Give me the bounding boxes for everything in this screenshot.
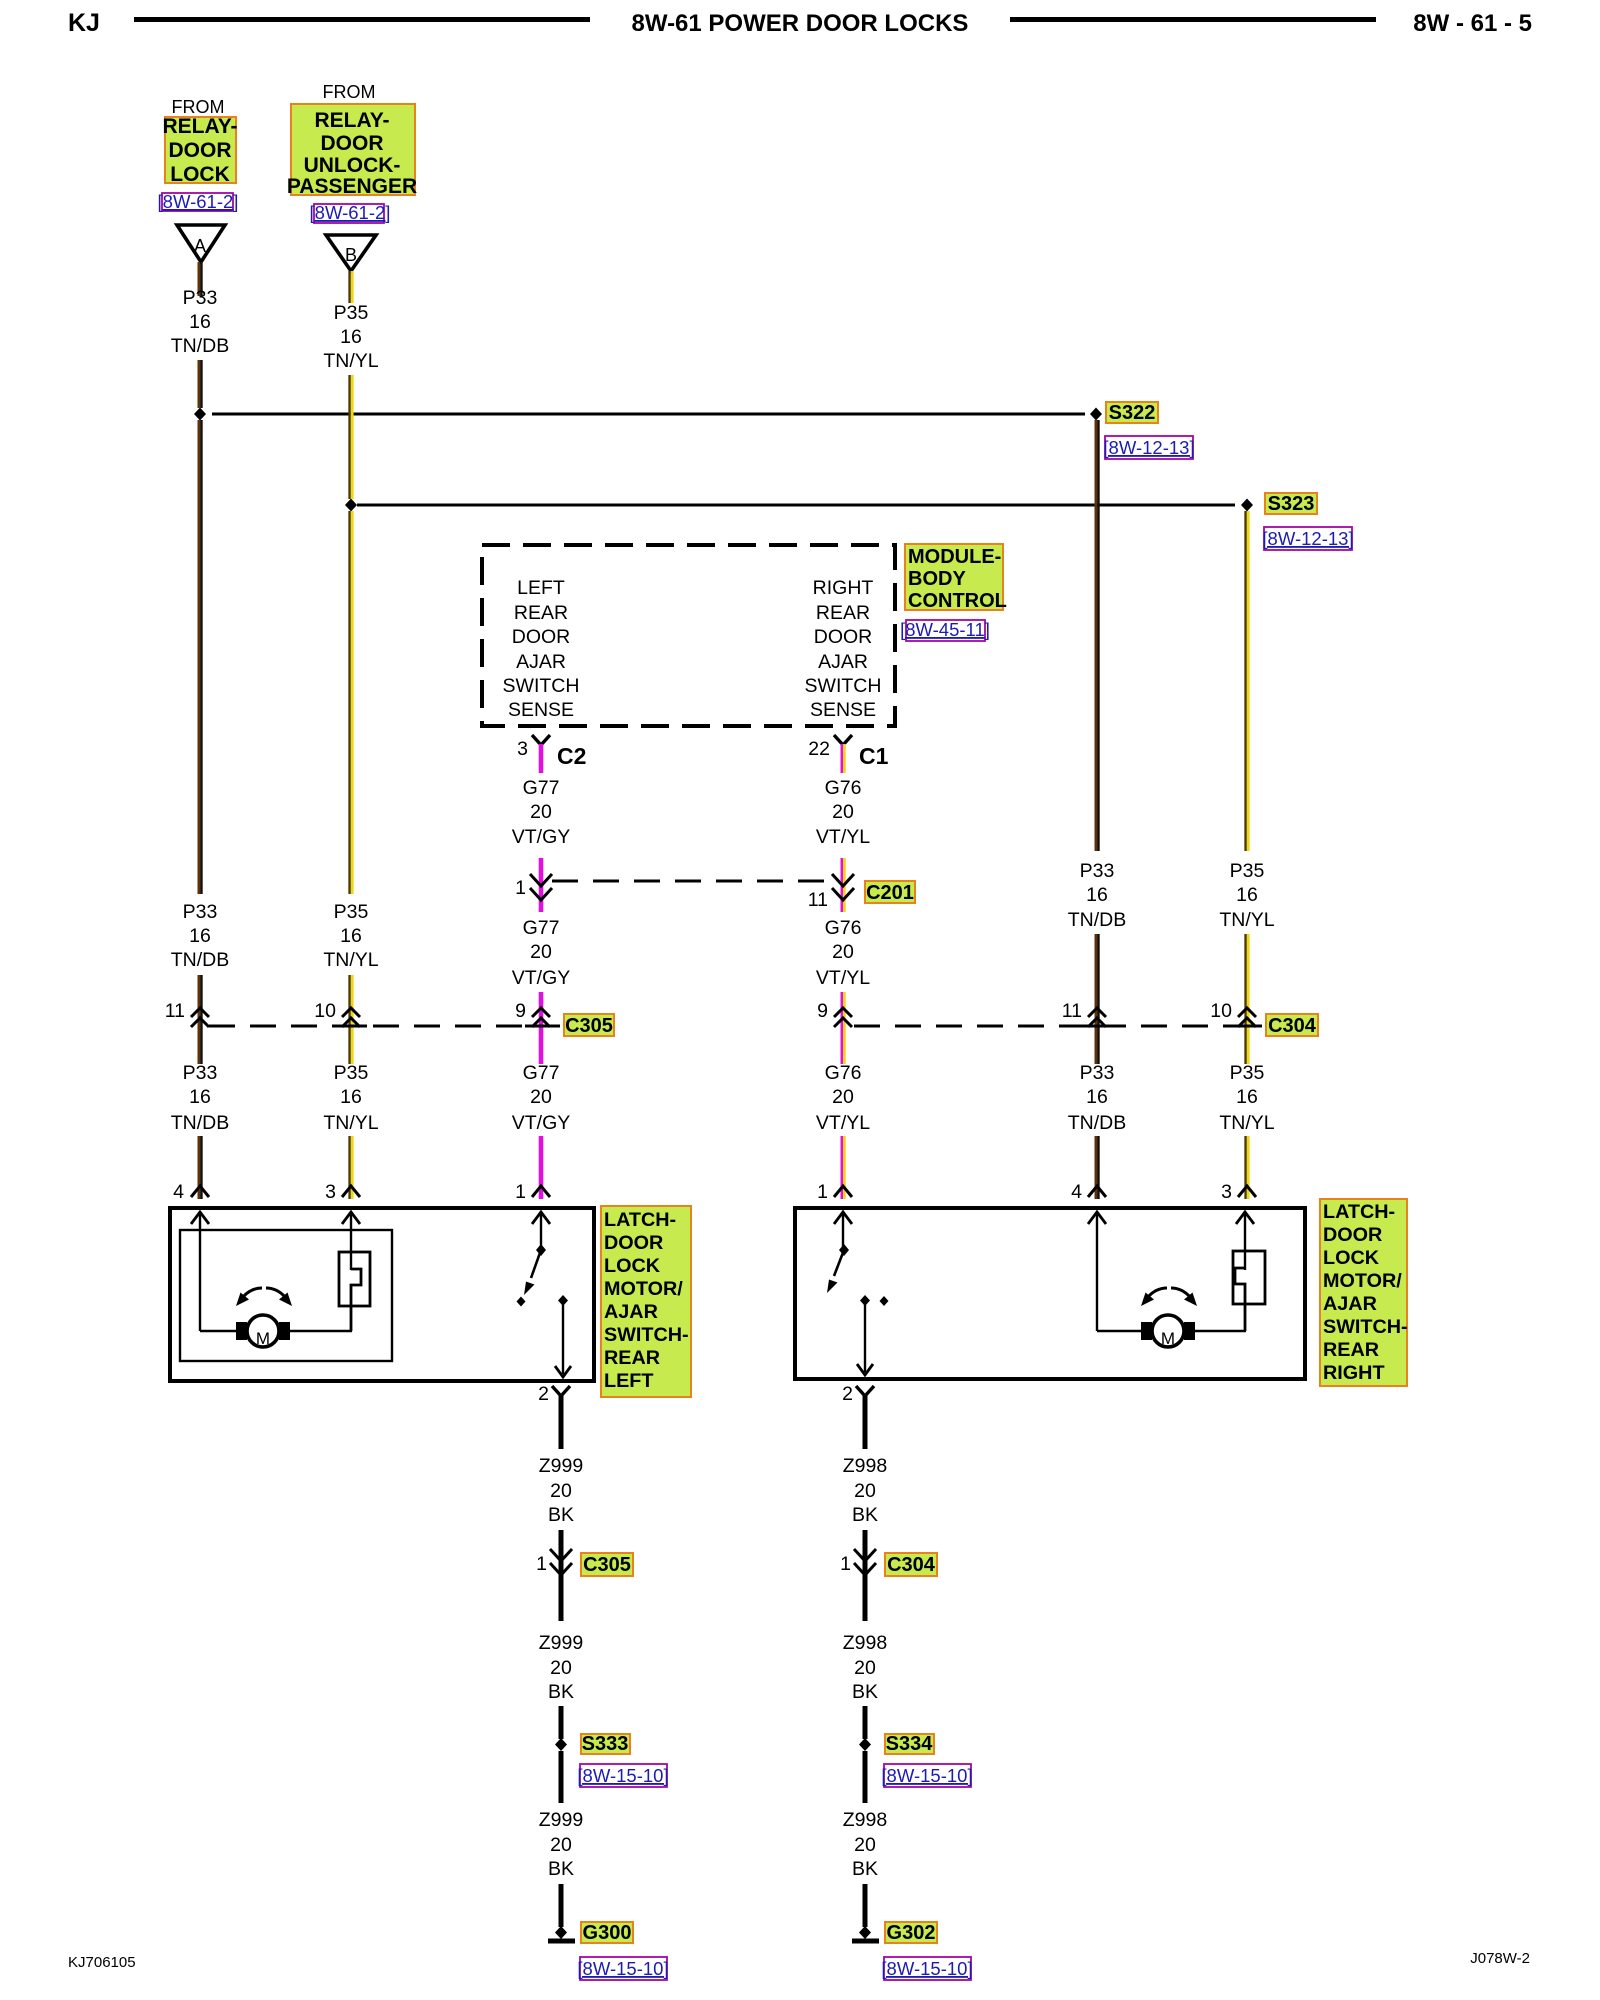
motor M left <box>247 1315 279 1347</box>
svg-text:TN/DB: TN/DB <box>171 335 230 357</box>
latch right motor feed wires <box>1097 1330 1142 1332</box>
svg-text:20: 20 <box>530 801 552 823</box>
connector C305 pin 9 chevrons <box>532 1008 550 1027</box>
svg-text:P33: P33 <box>183 1062 218 1084</box>
splice S322 horizontal bus <box>212 413 1085 416</box>
svg-text:BODY: BODY <box>908 568 966 590</box>
svg-text:BK: BK <box>852 1858 878 1880</box>
svg-text:MOTOR/: MOTOR/ <box>1323 1270 1402 1292</box>
svg-text:16: 16 <box>340 925 362 947</box>
svg-text:RELAY-: RELAY- <box>162 115 237 138</box>
svg-text:C2: C2 <box>557 743 586 769</box>
svg-text:TN/YL: TN/YL <box>323 350 378 372</box>
svg-text:20: 20 <box>550 1834 572 1856</box>
svg-text:RIGHT: RIGHT <box>813 577 874 599</box>
latch left motor feed wires <box>200 1330 237 1332</box>
svg-text:REAR: REAR <box>514 602 568 624</box>
connector C201 right half chevrons pin 11 <box>832 874 854 900</box>
connector label C304 upper <box>1266 1014 1318 1036</box>
svg-text:20: 20 <box>530 1086 552 1108</box>
svg-text:REAR: REAR <box>816 602 870 624</box>
svg-text:REAR: REAR <box>604 1347 660 1369</box>
svg-text:9: 9 <box>817 1000 828 1022</box>
svg-text:G302: G302 <box>887 1922 936 1944</box>
svg-text:8W-61 POWER DOOR LOCKS: 8W-61 POWER DOOR LOCKS <box>632 10 969 37</box>
connector C1 pin 22 symbol <box>834 735 852 745</box>
svg-text:S323: S323 <box>1268 493 1315 515</box>
latch right pin 4 chevron <box>1088 1186 1106 1197</box>
latch right pin 3 internal lead with up arrow <box>1244 1212 1246 1270</box>
svg-text:8W - 61 - 5: 8W - 61 - 5 <box>1413 10 1532 37</box>
svg-text:16: 16 <box>189 1086 211 1108</box>
hyperlink 8W-12-13 for S322 <box>1105 436 1193 459</box>
svg-text:VT/YL: VT/YL <box>816 967 870 989</box>
svg-text:G76: G76 <box>825 1062 862 1084</box>
latch left lock mechanism rectangle <box>339 1252 370 1306</box>
hyperlink 8W-15-10 for S334 <box>884 1764 971 1787</box>
svg-text:20: 20 <box>832 1086 854 1108</box>
svg-text:[8W-15-10]: [8W-15-10] <box>577 1958 668 1979</box>
module pin function text left rear door ajar switch sense <box>503 577 580 721</box>
svg-text:REAR: REAR <box>1323 1339 1379 1361</box>
svg-text:SWITCH-: SWITCH- <box>604 1324 689 1346</box>
svg-text:DOOR: DOOR <box>814 626 873 648</box>
svg-text:A: A <box>194 236 206 256</box>
wire P35 right column TN/YL <box>1246 511 1249 1199</box>
svg-text:VT/YL: VT/YL <box>816 1112 870 1134</box>
wire P33 right column TN/DB <box>1096 420 1099 1199</box>
svg-text:[8W-61-2]: [8W-61-2] <box>310 202 391 223</box>
svg-text:M: M <box>1161 1329 1175 1348</box>
svg-text:Z998: Z998 <box>843 1455 887 1477</box>
svg-text:10: 10 <box>1210 1000 1232 1022</box>
svg-text:Z999: Z999 <box>539 1455 583 1477</box>
rotation arrows left motor <box>243 1288 262 1297</box>
off-page connector triangle A <box>177 225 225 262</box>
svg-text:P35: P35 <box>1230 1062 1265 1084</box>
wire P33 left column TN/DB <box>199 262 202 1199</box>
svg-text:LATCH-: LATCH- <box>1323 1201 1395 1223</box>
svg-text:20: 20 <box>854 1834 876 1856</box>
switch output lead to pin 2 right <box>864 1301 866 1372</box>
svg-text:P33: P33 <box>183 287 218 309</box>
svg-text:G76: G76 <box>825 777 862 799</box>
svg-text:G77: G77 <box>523 917 560 939</box>
svg-text:20: 20 <box>550 1657 572 1679</box>
svg-text:LATCH-: LATCH- <box>604 1209 676 1231</box>
svg-text:P33: P33 <box>1080 860 1115 882</box>
connector C304 pin 9 chevrons <box>834 1008 852 1027</box>
svg-text:MOTOR/: MOTOR/ <box>604 1278 683 1300</box>
ground G300 dot <box>555 1926 567 1939</box>
wire G76 stub below C1 <box>840 744 843 773</box>
wire G77 segment to latch left <box>539 992 544 1064</box>
svg-text:TN/DB: TN/DB <box>1068 909 1127 931</box>
connector pin 2 Y symbol right <box>856 1386 874 1396</box>
latch right lock mechanism step <box>1235 1268 1245 1331</box>
latch left label box <box>601 1206 691 1397</box>
svg-text:16: 16 <box>189 925 211 947</box>
connector pin 2 Y symbol left <box>552 1386 570 1396</box>
svg-text:TN/YL: TN/YL <box>323 949 378 971</box>
svg-text:1: 1 <box>817 1181 828 1203</box>
latch left inner assembly box <box>180 1230 392 1361</box>
svg-text:[8W-61-2]: [8W-61-2] <box>158 191 239 212</box>
svg-text:2: 2 <box>842 1383 853 1405</box>
connector C305 pin 10 chevrons <box>342 1008 360 1027</box>
svg-text:16: 16 <box>189 311 211 333</box>
svg-text:SENSE: SENSE <box>508 699 574 721</box>
svg-text:BK: BK <box>852 1504 878 1526</box>
svg-text:MODULE-: MODULE- <box>908 546 1001 568</box>
junction dot on wire P35 at S323 <box>345 499 357 512</box>
svg-text:16: 16 <box>340 326 362 348</box>
svg-text:11: 11 <box>1062 1000 1082 1022</box>
svg-text:RIGHT: RIGHT <box>1323 1362 1385 1384</box>
svg-text:LOCK: LOCK <box>604 1255 661 1277</box>
in-line connector C304 dashed tie line <box>854 1025 1262 1028</box>
ground G302 bar <box>852 1939 879 1944</box>
svg-text:P33: P33 <box>1080 1062 1115 1084</box>
hyperlink 8W-15-10 for S333 <box>580 1764 667 1787</box>
svg-text:P35: P35 <box>334 901 369 923</box>
svg-text:16: 16 <box>1236 884 1258 906</box>
in-line connector C305 dashed tie line <box>209 1025 560 1028</box>
splice S322 end dot <box>1090 408 1102 421</box>
svg-text:16: 16 <box>1236 1086 1258 1108</box>
svg-text:VT/YL: VT/YL <box>816 826 870 848</box>
connector label C305 upper <box>564 1014 614 1036</box>
connector label C201 <box>865 881 915 903</box>
svg-text:20: 20 <box>854 1480 876 1502</box>
connector C304 pin 11 chevrons <box>1088 1008 1106 1027</box>
svg-text:CONTROL: CONTROL <box>908 590 1007 612</box>
svg-text:Z998: Z998 <box>843 1632 887 1654</box>
svg-text:22: 22 <box>808 738 830 760</box>
relay-door unlock-passenger source box <box>291 104 415 195</box>
svg-text:[8W-15-10]: [8W-15-10] <box>881 1958 972 1979</box>
svg-text:9: 9 <box>515 1000 526 1022</box>
latch right pin 3 chevron <box>1238 1186 1256 1197</box>
svg-text:G76: G76 <box>825 917 862 939</box>
splice label S333 <box>581 1734 630 1754</box>
svg-text:AJAR: AJAR <box>1323 1293 1377 1315</box>
svg-text:BK: BK <box>548 1858 574 1880</box>
wire Z999 black ground run left <box>559 1395 564 1927</box>
svg-text:PASSENGER: PASSENGER <box>287 175 417 198</box>
svg-text:20: 20 <box>832 801 854 823</box>
svg-text:16: 16 <box>1086 1086 1108 1108</box>
switch blade right <box>834 1250 844 1276</box>
svg-text:FROM: FROM <box>172 97 225 117</box>
header rule right <box>1010 17 1376 22</box>
svg-text:J078W-2: J078W-2 <box>1470 1950 1530 1967</box>
latch right lock mechanism rectangle <box>1233 1251 1265 1304</box>
svg-text:SWITCH: SWITCH <box>805 675 882 697</box>
svg-text:4: 4 <box>173 1181 184 1203</box>
connector label C305 lower <box>581 1553 633 1576</box>
svg-text:DOOR: DOOR <box>321 132 384 155</box>
svg-text:1: 1 <box>515 877 526 899</box>
svg-text:S322: S322 <box>1109 402 1156 424</box>
switch blade left <box>531 1250 541 1278</box>
svg-text:BK: BK <box>852 1681 878 1703</box>
svg-text:C305: C305 <box>583 1554 631 1576</box>
latch right pin 1 chevron <box>834 1186 852 1197</box>
latch-door lock motor/ajar switch-rear left outer box <box>170 1208 594 1381</box>
svg-text:P35: P35 <box>1230 860 1265 882</box>
svg-text:UNLOCK-: UNLOCK- <box>304 154 401 177</box>
hyperlink 8W-15-10 for G302 <box>884 1957 971 1980</box>
svg-text:C304: C304 <box>887 1554 936 1576</box>
svg-text:1: 1 <box>536 1553 547 1575</box>
connector C305 pin 11 chevrons <box>191 1008 209 1027</box>
svg-text:TN/DB: TN/DB <box>171 949 230 971</box>
svg-text:[8W-45-11]: [8W-45-11] <box>900 619 990 640</box>
splice S323 horizontal bus <box>357 504 1235 507</box>
svg-text:[8W-15-10]: [8W-15-10] <box>881 1765 972 1786</box>
switch spare contact dot right <box>880 1296 889 1306</box>
latch left pin 3 internal lead with up arrow <box>350 1212 352 1270</box>
svg-text:SWITCH: SWITCH <box>503 675 580 697</box>
svg-text:2: 2 <box>538 1383 549 1405</box>
svg-text:[8W-12-13]: [8W-12-13] <box>1103 437 1194 458</box>
switch pivot dot left <box>536 1244 546 1256</box>
svg-text:S334: S334 <box>886 1733 934 1755</box>
svg-text:P35: P35 <box>334 302 369 324</box>
svg-text:G300: G300 <box>583 1922 632 1944</box>
ground label G300 <box>581 1922 633 1943</box>
svg-text:VT/GY: VT/GY <box>512 1112 571 1134</box>
latch right ajar switch lead from pin 1 <box>842 1212 844 1248</box>
svg-text:B: B <box>345 245 357 265</box>
svg-text:TN/YL: TN/YL <box>323 1112 378 1134</box>
in-line connector C201 dashed tie line <box>552 880 832 883</box>
junction dot on wire P33 at S322 <box>194 408 206 421</box>
svg-text:TN/DB: TN/DB <box>1068 1112 1127 1134</box>
svg-text:C1: C1 <box>859 743 889 769</box>
latch-door lock motor/ajar switch-rear right outer box <box>795 1208 1305 1379</box>
off-page connector triangle B <box>326 235 376 271</box>
svg-text:P33: P33 <box>183 901 218 923</box>
hyperlink 8W-61-2 right <box>314 204 384 223</box>
ground G302 dot <box>859 1926 871 1939</box>
wire P35 left column TN/YL <box>350 271 353 1199</box>
svg-text:VT/GY: VT/GY <box>512 826 571 848</box>
svg-text:AJAR: AJAR <box>516 651 566 673</box>
svg-text:LOCK: LOCK <box>1323 1247 1380 1269</box>
svg-text:11: 11 <box>165 1000 185 1022</box>
splice S333 dot <box>555 1738 567 1751</box>
svg-text:DOOR: DOOR <box>512 626 571 648</box>
hyperlink 8W-61-2 left <box>162 193 233 211</box>
svg-text:G77: G77 <box>523 1062 560 1084</box>
svg-text:1: 1 <box>840 1553 851 1575</box>
svg-text:SWITCH-: SWITCH- <box>1323 1316 1408 1338</box>
svg-text:1: 1 <box>515 1181 526 1203</box>
svg-text:Z999: Z999 <box>539 1809 583 1831</box>
svg-text:TN/YL: TN/YL <box>1219 1112 1274 1134</box>
svg-text:FROM: FROM <box>323 82 376 102</box>
svg-text:LOCK: LOCK <box>170 163 230 186</box>
svg-text:16: 16 <box>1086 884 1108 906</box>
svg-text:TN/DB: TN/DB <box>171 1112 230 1134</box>
svg-text:AJAR: AJAR <box>818 651 868 673</box>
svg-text:20: 20 <box>550 1480 572 1502</box>
svg-text:Z998: Z998 <box>843 1809 887 1831</box>
relay-door lock source box <box>165 117 236 183</box>
hyperlink 8W-12-13 for S323 <box>1264 527 1352 550</box>
connector label C304 lower <box>885 1553 937 1576</box>
svg-text:C201: C201 <box>866 882 914 904</box>
wire Z998 black ground run right <box>863 1395 868 1927</box>
ground label G302 <box>885 1922 937 1943</box>
svg-text:C305: C305 <box>565 1015 613 1037</box>
motor M right <box>1152 1315 1184 1347</box>
splice label S323 <box>1265 493 1317 514</box>
switch output lead to pin 2 left <box>562 1301 564 1374</box>
svg-text:BK: BK <box>548 1504 574 1526</box>
svg-text:20: 20 <box>854 1657 876 1679</box>
svg-text:[8W-15-10]: [8W-15-10] <box>577 1765 668 1786</box>
body control module dashed box <box>482 545 895 726</box>
connector C201 left half chevrons pin 1 <box>530 874 552 900</box>
svg-text:DOOR: DOOR <box>169 139 232 162</box>
hyperlink 8W-45-11 <box>906 620 985 641</box>
wire G76 segment through C201 <box>840 858 843 912</box>
svg-text:[8W-12-13]: [8W-12-13] <box>1262 528 1353 549</box>
svg-text:SENSE: SENSE <box>810 699 876 721</box>
svg-text:KJ706105: KJ706105 <box>68 1954 136 1971</box>
in-line connector C305 lower chevrons pin 1 <box>550 1549 572 1575</box>
hyperlink 8W-15-10 for G300 <box>580 1957 667 1980</box>
ground G300 bar <box>548 1939 575 1944</box>
svg-text:BK: BK <box>548 1681 574 1703</box>
switch output contact dot right <box>860 1295 870 1306</box>
wire G77 segment through C201 <box>539 858 544 912</box>
latch left pin 1 chevron <box>532 1186 550 1197</box>
wire G77 stub below C2 <box>539 744 544 773</box>
svg-text:C304: C304 <box>1268 1015 1317 1037</box>
wire G76 segment to latch right <box>842 992 845 1199</box>
rotation arrows right motor <box>1148 1288 1167 1297</box>
svg-text:16: 16 <box>340 1086 362 1108</box>
latch left pin 4 internal lead with up arrow <box>199 1212 201 1331</box>
svg-text:AJAR: AJAR <box>604 1301 658 1323</box>
svg-text:G77: G77 <box>523 777 560 799</box>
splice S323 end dot <box>1241 499 1253 512</box>
latch left pin 3 chevron <box>342 1186 360 1197</box>
svg-text:Z999: Z999 <box>539 1632 583 1654</box>
splice label S322 <box>1106 402 1158 423</box>
switch pivot dot right <box>839 1244 849 1256</box>
connector C304 pin 10 chevrons <box>1238 1008 1256 1027</box>
svg-text:20: 20 <box>832 941 854 963</box>
svg-text:VT/GY: VT/GY <box>512 967 571 989</box>
module-body control label box <box>905 544 1003 610</box>
splice label S334 <box>885 1734 934 1754</box>
svg-text:RELAY-: RELAY- <box>314 109 389 132</box>
latch right label box <box>1320 1199 1407 1386</box>
svg-text:4: 4 <box>1071 1181 1082 1203</box>
splice S334 dot <box>859 1738 871 1751</box>
svg-text:P35: P35 <box>334 1062 369 1084</box>
header rule left <box>134 17 590 22</box>
svg-text:10: 10 <box>314 1000 336 1022</box>
svg-text:20: 20 <box>530 941 552 963</box>
svg-text:DOOR: DOOR <box>604 1232 663 1254</box>
svg-text:KJ: KJ <box>68 9 100 37</box>
svg-text:TN/YL: TN/YL <box>1219 909 1274 931</box>
svg-text:LEFT: LEFT <box>604 1370 653 1392</box>
module pin function text right rear door ajar switch sense <box>805 577 882 721</box>
latch right pin 4 internal lead with up arrow <box>1096 1212 1098 1331</box>
svg-text:M: M <box>256 1329 270 1348</box>
switch blade end contact left <box>517 1297 526 1307</box>
svg-text:S333: S333 <box>582 1733 629 1755</box>
switch output contact dot left <box>558 1295 568 1306</box>
svg-text:11: 11 <box>808 889 828 911</box>
latch left ajar switch lead from pin 1 <box>540 1212 542 1248</box>
svg-text:3: 3 <box>517 738 528 760</box>
svg-text:3: 3 <box>1221 1181 1232 1203</box>
svg-text:LEFT: LEFT <box>517 577 565 599</box>
connector C2 pin 3 symbol <box>532 735 550 745</box>
svg-text:DOOR: DOOR <box>1323 1224 1382 1246</box>
in-line connector C304 lower chevrons pin 1 <box>854 1549 876 1575</box>
latch left pin 4 chevron <box>191 1186 209 1197</box>
latch left lock mechanism step <box>351 1269 361 1331</box>
svg-text:3: 3 <box>325 1181 336 1203</box>
